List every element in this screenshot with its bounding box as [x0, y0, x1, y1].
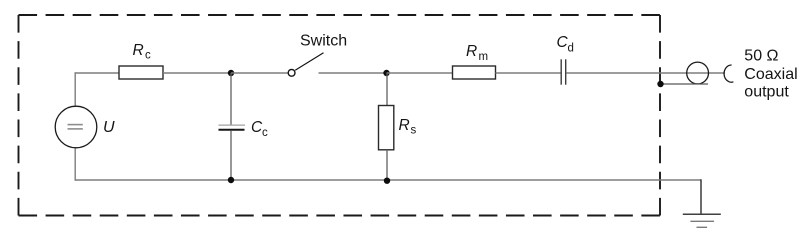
switch lever	[295, 53, 323, 70]
capacitor Cc top plate	[219, 124, 246, 126]
coaxial connector circle	[687, 62, 709, 84]
svg-text:R: R	[399, 117, 410, 134]
node shield junction dot	[657, 81, 663, 87]
wire Cc bottom stub	[230, 131, 232, 180]
wire left vertical (top rail down to source top)	[74, 72, 76, 106]
svg-text:Coaxial: Coaxial	[744, 66, 797, 83]
wire source bottom to bottom rail	[74, 148, 76, 180]
coaxial jack arc	[724, 65, 733, 82]
svg-text:50 Ω: 50 Ω	[744, 48, 778, 65]
capacitor Cd	[560, 59, 562, 84]
wire bottom rail to ground	[700, 179, 702, 214]
enclosure dashed border	[19, 15, 661, 216]
svg-text:output: output	[744, 83, 789, 100]
wire bottom rail	[75, 179, 702, 181]
svg-text:c: c	[262, 127, 268, 139]
svg-text:c: c	[145, 50, 151, 62]
switch pivot circle	[288, 69, 295, 76]
svg-text:R: R	[466, 43, 477, 60]
node A junction dot	[228, 70, 234, 76]
svg-text:R: R	[133, 42, 144, 59]
wire Rc to node A	[163, 72, 231, 74]
svg-text:Switch: Switch	[300, 33, 347, 50]
resistor Rm	[453, 66, 496, 79]
voltage source = symbol	[68, 124, 83, 126]
node B junction dot	[383, 70, 389, 76]
ground	[683, 213, 721, 215]
svg-text:U: U	[103, 119, 115, 136]
wire Cd to coaxial output	[566, 72, 725, 74]
voltage source U circle	[55, 106, 97, 148]
wire node B to Rm	[387, 72, 453, 74]
svg-text:m: m	[479, 51, 489, 63]
wire switch to node B	[319, 72, 387, 74]
node Rs-bottom junction dot	[384, 178, 390, 184]
svg-text:s: s	[411, 125, 417, 137]
wire top-left horizontal (source to Rc)	[75, 72, 120, 74]
svg-text:d: d	[568, 43, 574, 55]
wire node A to switch	[231, 72, 288, 74]
wire Rs bottom stub	[386, 150, 388, 180]
wire Rs top stub	[386, 73, 388, 106]
resistor Rs	[379, 106, 394, 150]
resistor Rc	[119, 66, 163, 79]
capacitor Cc bottom plate	[219, 129, 245, 131]
shield line (connector ground)	[661, 83, 709, 85]
node Cc-bottom junction dot	[228, 177, 234, 183]
wire Rm to Cd	[496, 72, 561, 74]
wire Cc top stub	[230, 73, 232, 125]
